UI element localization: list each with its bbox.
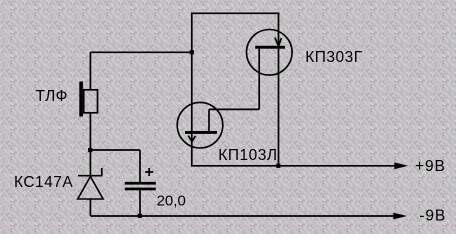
svg-text:КП303Г: КП303Г (305, 49, 363, 66)
wire -9V rail (90, 215, 395, 217)
zener VD1 triangle (78, 177, 103, 200)
zener VD1 cathode tick (101, 168, 103, 176)
capacitor C1 top plate (125, 182, 156, 185)
earpiece BF1 box (84, 90, 98, 113)
wire TLF down to earpiece (89, 52, 91, 89)
capacitor C1 bottom plate (125, 188, 156, 191)
wire top horizontal (191, 12, 279, 14)
transistor VT1 KP303G circle (246, 30, 292, 76)
transistor VT1 gate arrow (275, 38, 281, 47)
wire capacitor top lead (139, 150, 141, 183)
wire zener anode to -9V rail (89, 199, 91, 216)
node: junction dot diode/cap (88, 148, 92, 152)
wire TLF horizontal (90, 51, 191, 53)
svg-text:КП103Л: КП103Л (218, 147, 277, 164)
zener VD1 cathode bar (78, 175, 103, 177)
wire +9V rail (192, 165, 396, 167)
transistor VT2 KP103L circle (177, 102, 223, 148)
transistor VT1 channel bar (255, 46, 285, 49)
svg-text:-9В: -9В (419, 207, 446, 224)
svg-text:+9В: +9В (415, 158, 446, 175)
node: junction dot TLF tap (190, 50, 194, 54)
earpiece BF1 thick bar (79, 82, 83, 117)
wire left vertical (through VT2 channel) (191, 13, 193, 167)
capacitor C1 plus sign (145, 168, 153, 176)
arrow +9V (394, 162, 408, 169)
wire right vertical (through VT1 channel) (278, 13, 280, 166)
wire capacitor bottom lead (139, 190, 141, 216)
wire earpiece to diode node (89, 113, 91, 152)
node: junction dot cap to -9V rail (138, 214, 142, 218)
node: junction dot +9V rail / VT1 (276, 164, 280, 168)
wire node to capacitor top (90, 149, 140, 151)
wire VT2 drain up (208, 109, 210, 131)
wire node to zener cathode (89, 150, 91, 176)
svg-text:ТЛФ: ТЛФ (36, 88, 68, 105)
transistor VT2 channel bar (185, 131, 217, 134)
arrow -9V (393, 213, 407, 220)
wire VT1 to VT2 horizontal (209, 108, 259, 110)
wire VT1 source down (258, 49, 260, 110)
transistor VT2 gate arrow (188, 136, 195, 142)
svg-text:20,0: 20,0 (157, 192, 186, 209)
svg-text:КС147А: КС147А (14, 174, 73, 191)
